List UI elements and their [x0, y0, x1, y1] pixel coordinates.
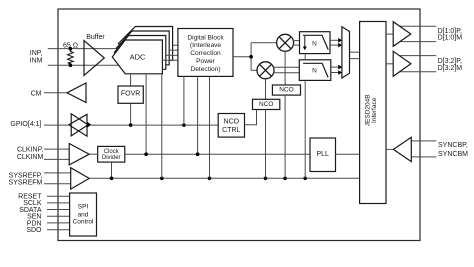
wire SYNCBM input	[411, 156, 436, 158]
svg-text:Detection): Detection)	[190, 66, 220, 73]
svg-text:Control: Control	[73, 219, 95, 226]
NCO1 block	[272, 85, 300, 95]
wire mixer 1 to NCO1	[284, 51, 286, 85]
wire clock to ADC	[145, 74, 147, 154]
svg-text:D[1:0]M: D[1:0]M	[438, 35, 463, 42]
NCO CTRL block	[218, 114, 244, 138]
wire mixer 1 to decimation filter 1	[293, 41, 300, 46]
svg-text:CLKINM: CLKINM	[17, 154, 44, 161]
wire CLKINP input	[44, 148, 69, 150]
wire SYSREF to digital block	[209, 76, 211, 178]
wire D[1:0]M output	[393, 41, 436, 43]
node SYSREF-NCO2 junction	[264, 177, 268, 181]
clock input buffer	[69, 144, 89, 165]
svg-text:SYSREFM: SYSREFM	[9, 179, 43, 186]
pin label CLKINP, CLKINM	[17, 147, 44, 161]
wire ADC output bus to digital block	[162, 45, 178, 60]
svg-text:(Interleave: (Interleave	[190, 42, 221, 49]
wire SYNCB buffer to JESD204B	[386, 148, 393, 150]
FOVR block	[118, 86, 143, 103]
svg-text:INP,: INP,	[30, 50, 43, 57]
wire CM output	[44, 92, 67, 94]
svg-text:Clock: Clock	[104, 149, 120, 155]
wire JESD204B to D[1:0] driver	[386, 33, 393, 35]
wire SDO output	[47, 229, 70, 231]
node SYSREF-NCO1 junction	[283, 177, 287, 181]
pin label D[1:0]P, D[1:0]M	[438, 28, 463, 42]
wire filter 1 to mux with arrows	[330, 38, 342, 47]
wire mux to JESD204B	[350, 52, 360, 58]
svg-text:Digital Block: Digital Block	[187, 34, 224, 41]
wire RESET input	[47, 195, 70, 197]
node clock-digital block junction	[196, 152, 200, 156]
SPI and control block	[70, 193, 97, 236]
wire SYSREF to ADC	[161, 74, 163, 179]
wire mixer 2 to decimation filter 2	[273, 67, 299, 72]
svg-text:SPI: SPI	[78, 204, 89, 211]
svg-text:FOVR: FOVR	[121, 90, 140, 97]
wire GPIO pin stub	[44, 124, 68, 126]
svg-text:SYSREFP,: SYSREFP,	[9, 172, 43, 179]
wire SYNCBP input	[411, 140, 436, 142]
node mixer feed branch junction	[249, 55, 253, 59]
wire D[1:0]P output	[393, 25, 436, 27]
JESD204B interface block	[360, 22, 386, 204]
clock divider block	[98, 146, 125, 162]
wire clock buffer to clock divider	[89, 153, 98, 155]
svg-text:CM: CM	[31, 90, 42, 97]
svg-text:Interface: Interface	[371, 97, 378, 123]
node SYSREF-ADC junction	[160, 177, 164, 181]
wire decimation clock from SYSREF net	[304, 54, 306, 179]
svg-text:SYNCBM: SYNCBM	[438, 151, 468, 158]
digital block (interleave correction power detection)	[178, 29, 233, 77]
wire INM input	[48, 64, 119, 66]
svg-text:GPIO[4:1]: GPIO[4:1]	[10, 121, 41, 128]
node resistor-INM junction	[69, 63, 73, 67]
decimation filter 2 (divide by N low-pass)	[299, 60, 331, 81]
svg-text:NCO: NCO	[224, 119, 240, 126]
svg-text:PLL: PLL	[316, 151, 329, 158]
wire NCO1 to SYSREF net	[284, 95, 286, 178]
wire D[3:2]P output	[393, 55, 436, 57]
SYNCB input buffer	[393, 137, 411, 161]
svg-text:Power: Power	[196, 58, 215, 65]
wire clock divider to SYSREF net	[111, 162, 113, 178]
wire ADC to FOVR	[130, 74, 132, 86]
wire GPIO net to NCO CTRL	[91, 124, 218, 126]
svg-text:Buffer: Buffer	[86, 34, 105, 41]
wire digital block output to mixers	[233, 43, 277, 71]
svg-text:N: N	[312, 68, 317, 75]
svg-text:SDO: SDO	[26, 227, 42, 234]
svg-text:NCO: NCO	[259, 101, 273, 108]
wire SYSREF net to JESD204B	[89, 177, 359, 179]
svg-text:Correction: Correction	[190, 50, 221, 57]
node SYSREF-decimation junction	[303, 177, 307, 181]
svg-text:Divider: Divider	[102, 155, 121, 161]
node resistor-INP junction	[69, 47, 73, 51]
wire PLL to JESD204B	[336, 153, 360, 155]
svg-text:CTRL: CTRL	[222, 127, 240, 134]
PLL block	[310, 138, 336, 172]
svg-text:CLKINP,: CLKINP,	[17, 147, 43, 154]
svg-text:D[3:2]M: D[3:2]M	[438, 65, 463, 72]
D[1:0] output driver	[393, 22, 411, 47]
pin label SYNCBP, SYNCBM	[438, 142, 468, 158]
input buffer amplifier	[84, 41, 104, 76]
node clock-ADC junction	[144, 152, 148, 156]
GPIO bidirectional buffer	[69, 114, 92, 137]
svg-text:SYNCBP,: SYNCBP,	[438, 142, 468, 149]
wire GPIO net to digital block	[183, 76, 185, 125]
ADC channel 4 (back)	[118, 27, 172, 61]
wire NCO2 to SYSREF net	[265, 110, 267, 179]
resistor 65 ohm termination	[68, 49, 74, 66]
output mux	[342, 27, 350, 78]
wire NCO CTRL to NCO2	[245, 110, 257, 125]
node GPIO-FOVR junction	[129, 123, 133, 127]
wire SEN input	[47, 215, 70, 217]
ADC channel 3	[116, 31, 169, 65]
CM output buffer	[67, 83, 86, 103]
mixer 2	[257, 62, 274, 79]
NCO2 block	[253, 99, 280, 109]
wire CLKINM input	[44, 158, 69, 160]
wire SYSREFM input	[44, 183, 71, 185]
svg-text:ADC: ADC	[130, 53, 146, 62]
wire FOVR to GPIO net	[130, 103, 132, 125]
pin label SYSREFP, SYSREFM	[9, 172, 43, 186]
wire mixer 2 to NCO2	[265, 79, 267, 100]
node SYSREF-digital block junction	[208, 177, 212, 181]
wire clock to digital block	[197, 76, 199, 154]
wire INP input	[48, 48, 117, 50]
wire JESD204B to D[3:2] driver	[386, 63, 393, 65]
wire SYSREFP input	[44, 172, 71, 174]
svg-text:N: N	[312, 40, 317, 47]
wire SCLK input	[47, 202, 70, 204]
wire filter 2 to mux with arrows	[331, 65, 342, 75]
svg-text:INM: INM	[30, 58, 43, 65]
ADC channel 1 (front)	[112, 40, 162, 74]
mixer 1	[277, 34, 294, 51]
pin label INP, INM	[30, 50, 43, 64]
svg-text:NCO: NCO	[279, 87, 293, 94]
chip boundary box	[58, 9, 420, 241]
wire SDATA input	[47, 209, 70, 211]
wire D[3:2]M output	[393, 71, 436, 73]
SYSREF input buffer	[71, 168, 90, 189]
ADC channel 2	[114, 36, 166, 70]
pin labels RESET SCLK SDATA SEN PDN SDO	[18, 194, 42, 235]
pin label D[3:2]P, D[3:2]M	[438, 58, 463, 72]
wire clock net to PLL	[125, 153, 310, 155]
decimation filter 1 (divide by N low-pass)	[300, 32, 331, 54]
wire PDN input	[47, 222, 70, 224]
D[3:2] output driver	[393, 51, 411, 76]
node GPIO-digital block junction	[182, 123, 186, 127]
node SYSREF-clock divider junction	[110, 177, 114, 181]
